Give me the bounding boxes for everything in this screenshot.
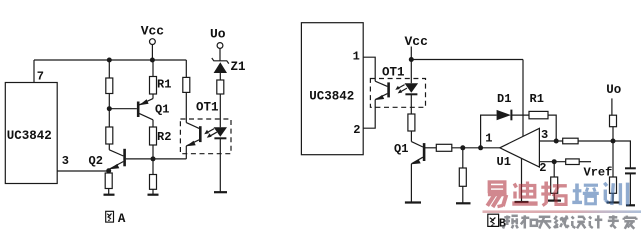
wire Vcc node to LED anode xyxy=(410,60,412,84)
transistor Q2 emitter lead xyxy=(110,162,124,169)
svg-text:D1: D1 xyxy=(497,92,511,106)
wire U1 V- to ground xyxy=(521,158,523,202)
svg-text:Uo: Uo xyxy=(606,83,621,97)
node Vcc junction (fig B) xyxy=(409,57,414,62)
wire resistor to ground xyxy=(553,193,555,200)
resistor (lower, x109 branch) xyxy=(106,127,113,144)
wire rail to upper-left resistor xyxy=(108,60,110,78)
node output row / R1 junction xyxy=(554,139,559,144)
optocoupler OT1 (fig B) dashed box xyxy=(370,79,425,108)
wire rail corner down to opto resistor xyxy=(185,60,187,77)
wire pin 2 xyxy=(363,100,375,129)
svg-text:Q2: Q2 xyxy=(89,154,103,168)
ground (LED, fig A) xyxy=(214,191,227,193)
wire resistor to ground xyxy=(108,189,110,195)
svg-text:Q1: Q1 xyxy=(155,103,169,117)
watermark char PEI (cultivate) xyxy=(572,184,599,204)
phototransistor emitter arrow (fig B) xyxy=(375,95,384,100)
transistor Q1 (fig B) bar xyxy=(423,143,426,161)
resistor (below Q2-base node) xyxy=(150,175,157,190)
ground (U1, fig B) xyxy=(515,201,529,203)
wire resistor to Q1 collector xyxy=(410,131,412,142)
phototransistor collector lead (fig B) xyxy=(375,81,387,86)
wire resistor to Q1-base node xyxy=(108,94,110,109)
svg-text:Vcc: Vcc xyxy=(141,24,165,39)
phototransistor bar (fig B) xyxy=(387,82,390,97)
watermark char XUN (training) xyxy=(604,183,627,206)
wire pin2 row to Vref stub xyxy=(579,161,591,163)
wire resistor to ground xyxy=(152,189,154,194)
wire emitter down and out of box xyxy=(185,146,187,159)
wire node A to capacitor xyxy=(613,141,630,168)
opto light arrow 2 (fig B) xyxy=(399,88,407,92)
phototransistor emitter lead (fig B) xyxy=(375,94,387,100)
caption 图A glyph TU xyxy=(106,211,114,222)
wire rail to R1 xyxy=(152,60,154,77)
wire output row to node A xyxy=(578,140,613,142)
diode D1 triangle xyxy=(497,110,511,120)
svg-text:Z1: Z1 xyxy=(231,60,246,74)
wire pin7 riser xyxy=(33,60,35,83)
slogan char TIAN xyxy=(538,217,552,229)
wire lower resistor to ground xyxy=(612,193,614,202)
transistor Q1 emitter lead (fig B) xyxy=(411,157,423,164)
Uo terminal circle (fig A) xyxy=(217,43,223,49)
svg-text:UC3842: UC3842 xyxy=(7,129,52,143)
opto LED cathode bar (fig B) xyxy=(405,93,417,95)
wire R1 to output-row drop xyxy=(548,115,556,141)
resistor (upper, x109 branch) xyxy=(106,78,113,94)
transistor Q2 emitter arrow xyxy=(110,164,120,169)
zener Z1 triangle xyxy=(214,62,227,73)
svg-text:1: 1 xyxy=(353,49,360,63)
wire base resistor to input row xyxy=(452,147,500,149)
node Q1 base tee xyxy=(107,106,112,111)
watermark underline rule xyxy=(483,210,641,213)
wire resistor to LED anode xyxy=(219,94,221,127)
wire Vcc row to op-amp V+ drop xyxy=(411,59,523,61)
wire Vcc lead xyxy=(410,47,412,60)
transistor Q2 collector lead xyxy=(109,150,123,156)
phototransistor collector lead xyxy=(186,123,199,129)
wire pin2 node to resistor xyxy=(553,162,555,177)
node input row / pulldown tee xyxy=(460,145,465,150)
svg-text:3: 3 xyxy=(541,128,548,142)
wire resistor to Q2 collector xyxy=(108,144,110,150)
wire capacitor to ground xyxy=(629,173,631,205)
diode D1 cathode bar xyxy=(510,110,512,121)
resistor (lower divider) xyxy=(610,177,617,193)
wire zener to resistor xyxy=(219,73,221,80)
node A (divider junction) xyxy=(611,139,616,144)
opto LED triangle (fig B) xyxy=(405,83,419,93)
node input row / D1 feedback tee xyxy=(478,145,483,150)
wire node down to resistor xyxy=(152,159,154,175)
wire divider resistor to node A xyxy=(612,127,614,141)
transistor Q1 emitter arrow (fig B) xyxy=(411,159,420,164)
wire resistor down to phototransistor collector xyxy=(185,92,187,122)
phototransistor emitter arrow xyxy=(186,141,196,147)
watermark char TUO (expand) xyxy=(541,182,567,206)
wire output row (pin 3) xyxy=(539,140,562,142)
wire emitter to Q2 base node xyxy=(153,158,186,160)
resistor R2 (fig A) xyxy=(150,127,157,145)
resistor (below pin3 node) xyxy=(105,173,112,189)
Vcc terminal circle (fig A) xyxy=(150,39,156,45)
transistor Q1 collector lead (fig B) xyxy=(411,142,423,147)
svg-text:Vref: Vref xyxy=(584,166,613,180)
wire V+ drop to op-amp top edge (crosses D1 row, no joint) xyxy=(522,60,524,137)
optocoupler OT1 (fig A) dashed box xyxy=(180,119,231,154)
node pin2 row tee xyxy=(552,159,557,164)
opto light arrow 1 (fig A) xyxy=(206,129,214,134)
node pin3 / emitter junction xyxy=(106,168,111,173)
phototransistor emitter lead xyxy=(186,140,199,146)
wire R2 to base node xyxy=(152,145,154,159)
opto LED triangle (fig A) xyxy=(214,127,227,137)
wire node to lower-left resistor xyxy=(108,109,110,127)
ground (pin2 branch, fig B) xyxy=(548,200,561,202)
svg-text:UC3842: UC3842 xyxy=(309,89,354,103)
wire Uo lead xyxy=(611,98,613,115)
wire pin 3 xyxy=(57,170,108,172)
wire Q1 collector to R2 xyxy=(152,120,154,127)
wire Vcc lead xyxy=(151,45,153,61)
node rail-left-branch junction xyxy=(107,58,112,63)
transistor Q1 emitter lead (to R1) xyxy=(139,99,153,105)
svg-text:2: 2 xyxy=(353,123,360,137)
svg-text:Q1: Q1 xyxy=(394,142,408,156)
ground (Q1, fig B) xyxy=(405,201,421,203)
svg-text:A: A xyxy=(118,212,126,226)
resistor (Uo upper divider) xyxy=(610,115,617,127)
resistor (Q1 base, horizontal) xyxy=(436,144,452,151)
svg-text:R1: R1 xyxy=(530,92,544,106)
svg-text:7: 7 xyxy=(37,70,44,84)
resistor (pin2 row, horizontal) xyxy=(566,159,580,165)
resistor R1 (fig B, horizontal) xyxy=(529,111,548,118)
ground (x463, fig B) xyxy=(456,202,471,204)
transistor Q1 base lead (fig B) xyxy=(424,147,436,149)
svg-text:2: 2 xyxy=(539,161,546,175)
caption 图B glyph TU xyxy=(488,214,499,226)
capacitor C top plate xyxy=(625,167,636,169)
node rail-Vcc junction xyxy=(150,58,155,63)
opto light arrow 1 (fig B) xyxy=(397,85,405,89)
svg-text:3: 3 xyxy=(62,154,69,168)
wire R1 to Q1 emitter xyxy=(152,94,154,99)
resistor (below Z1) xyxy=(217,80,224,94)
node Q2 base / emitter-junction xyxy=(151,156,156,161)
svg-text:OT1: OT1 xyxy=(382,65,405,79)
svg-text:Uo: Uo xyxy=(210,27,226,42)
wire Vcc rail xyxy=(34,59,186,61)
slogan char JIA xyxy=(624,216,637,229)
svg-text:U1: U1 xyxy=(497,155,511,169)
wire feedback riser xyxy=(481,115,497,148)
wire Q1 base lead xyxy=(109,108,137,110)
wire LED cathode to ground xyxy=(219,138,221,192)
ground (x153) xyxy=(148,194,159,196)
watermark slogan row (gray) xyxy=(503,215,636,229)
wire D1 to R1 xyxy=(511,114,529,116)
wire pin 2 row xyxy=(539,161,565,163)
wire LED cathode to resistor xyxy=(410,94,412,114)
transistor Q2 base lead xyxy=(126,158,153,160)
slogan char JI xyxy=(589,215,602,228)
wire Q1 emitter to ground xyxy=(410,164,412,203)
slogan char ZHUAN xyxy=(608,215,619,228)
IC U-A UC3842 box xyxy=(5,83,57,184)
slogan char PIN xyxy=(503,216,518,229)
transistor Q1 collector lead (to R2) xyxy=(139,114,153,120)
svg-text:1: 1 xyxy=(485,132,492,146)
slogan char XIAN xyxy=(554,216,569,228)
ground (divider, fig B) xyxy=(607,201,620,203)
transistor Q1 (PNP) bar xyxy=(137,102,140,118)
resistor R1 (fig A) xyxy=(150,77,157,95)
resistor (below pin2 node) xyxy=(551,177,558,193)
resistor (below LED, fig B) xyxy=(408,114,415,131)
wire junction down to resistor xyxy=(108,171,110,173)
ground (capacitor, fig B) xyxy=(626,204,635,206)
wire node A to lower divider resistor xyxy=(612,141,614,177)
opto light arrow 2 (fig A) xyxy=(209,132,217,137)
phototransistor bar (fig A) xyxy=(199,126,202,142)
capacitor C bottom plate xyxy=(625,172,636,174)
resistor (above optocoupler, fig A) xyxy=(183,77,190,92)
wire Uo lead to zener xyxy=(219,48,221,60)
ground (x109) xyxy=(104,194,115,196)
slogan char HE xyxy=(521,215,537,228)
transistor Q2 (NPN mirrored) bar xyxy=(123,149,126,167)
resistor (output row, horizontal) xyxy=(563,138,578,144)
svg-text:R1: R1 xyxy=(157,78,171,92)
svg-text:Vcc: Vcc xyxy=(405,34,429,49)
wire node to pulldown resistor xyxy=(462,148,464,168)
wire pulldown resistor to ground xyxy=(462,186,464,203)
transistor Q1 emitter arrow xyxy=(139,99,148,105)
IC U-B UC3842 box xyxy=(301,23,363,155)
op-amp U1 triangle (points left) xyxy=(500,128,540,167)
svg-text:R2: R2 xyxy=(157,130,171,144)
watermark char DI (enlighten) xyxy=(512,182,537,204)
wire pin 1 xyxy=(363,57,375,81)
slogan char SHE xyxy=(572,217,586,229)
resistor (pulldown at 463) xyxy=(459,168,466,186)
opto LED cathode bar (fig A) xyxy=(214,137,226,139)
zener Z1 cathode bar xyxy=(212,58,229,64)
svg-text:OT1: OT1 xyxy=(196,101,219,115)
watermark char YI (easy) xyxy=(487,182,506,207)
